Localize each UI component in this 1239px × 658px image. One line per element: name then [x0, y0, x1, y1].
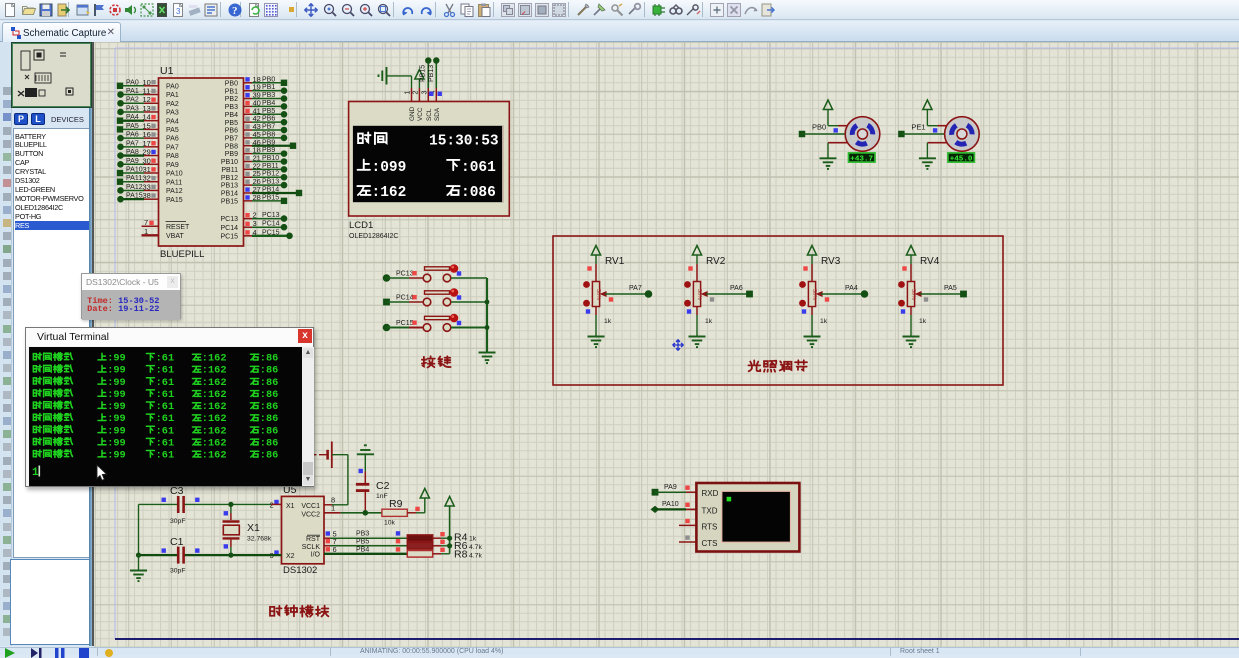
svg-text::99: :99	[107, 450, 126, 462]
push button PC15	[383, 314, 487, 332]
toolbar icon doc-3	[171, 2, 187, 18]
terminal text row 9	[33, 450, 278, 462]
U1 pin PA11 (pin 32) wire + terminal	[117, 174, 182, 187]
servo angle readout +45.0	[948, 153, 975, 164]
toolbar icon dot	[284, 2, 300, 18]
U1 pin PA12 (pin 33) wire + terminal	[117, 182, 183, 195]
OLED pin stubs and numbers	[405, 88, 442, 102]
power symbol above RV2	[692, 246, 701, 265]
resistor R6 4.7k	[407, 540, 482, 552]
svg-text::99: :99	[107, 389, 126, 401]
toolbar icon new	[3, 2, 19, 18]
potentiometer RV2 1k	[684, 256, 726, 307]
U1 pin PB15 (pin 28) wire + terminal	[221, 193, 287, 206]
terminal cursor row	[32, 466, 40, 480]
wiper wire net PA7	[605, 285, 652, 302]
U1 pin PB9 (pin 18) wire + terminal	[225, 146, 288, 159]
toolbar icon cut	[442, 2, 458, 18]
ground symbol (buttons)	[479, 353, 496, 364]
svg-text::162: :162	[202, 425, 227, 437]
svg-text::162: :162	[202, 401, 227, 413]
svg-text::162: :162	[202, 450, 227, 462]
preview pane	[10, 559, 90, 645]
toolbar icon eraser	[187, 2, 203, 18]
U1 pin PA7 (pin 17) wire + terminal	[117, 139, 179, 152]
U1 pin PA10 (pin 31) wire + terminal	[117, 165, 183, 178]
toolbar icon remove-sheet	[726, 2, 742, 18]
U1 pin PC14 (pin 3) wire + terminal	[220, 219, 287, 232]
toolbar icon zoom-in	[358, 2, 374, 18]
resistor R8 4.7k	[407, 548, 482, 561]
tab bar	[0, 21, 1239, 42]
svg-text::162: :162	[202, 353, 227, 365]
svg-text::162: :162	[202, 389, 227, 401]
svg-text::99: :99	[107, 365, 126, 377]
label 光照调节	[748, 360, 807, 371]
U1 pin PB8 (pin 46) wire + terminal	[225, 138, 296, 151]
svg-text::99: :99	[107, 413, 126, 425]
terminal RTS stub	[679, 519, 696, 526]
svg-text::61: :61	[156, 450, 175, 462]
capacitor C1 30pF	[139, 536, 200, 575]
U1 pin PA1 (pin 11) wire + terminal	[117, 87, 179, 100]
U1 pin PB5 (pin 42) wire + terminal	[225, 114, 288, 127]
svg-text::86: :86	[260, 377, 279, 389]
wire net PA9 to terminal RXD	[652, 484, 697, 496]
U1 pin PA6 (pin 16) wire + terminal	[117, 130, 179, 143]
svg-text::99: :99	[107, 353, 126, 365]
U1 pin PB2 (pin 39) wire + terminal	[225, 91, 288, 104]
Virtual Terminal window	[25, 327, 314, 487]
potentiometer RV3 1k	[799, 256, 841, 307]
terminal text row 4	[33, 389, 278, 401]
ground symbol below servo PE1	[919, 143, 948, 169]
toolbar icon component	[107, 2, 123, 18]
toolbar icon copy	[459, 2, 475, 18]
toolbar icon block-delete	[551, 2, 567, 18]
stop button	[78, 648, 90, 658]
wire net PA10 to terminal TXD	[651, 501, 697, 513]
U1 pin PA15 (pin 38) wire + terminal	[117, 191, 183, 204]
terminal text row 5	[33, 401, 278, 413]
toolbar icon pan	[303, 2, 319, 18]
svg-text::86: :86	[260, 353, 279, 365]
wire U5 SCLK net PB5	[324, 538, 407, 546]
LCD1 labels	[349, 220, 398, 240]
U1 pin PA0 (pin 10) wire + terminal	[117, 78, 179, 91]
wire net PE1 to servo signal pin	[898, 123, 944, 138]
push button PC14	[383, 288, 487, 306]
svg-text::86: :86	[260, 450, 279, 462]
toolbar icon decompose	[626, 2, 642, 18]
push button PC13	[383, 264, 487, 282]
toolbar icon block-copy	[500, 2, 516, 18]
power symbol above servo PB0	[823, 100, 848, 126]
terminal text row 8	[33, 437, 278, 449]
svg-text::86: :86	[260, 401, 279, 413]
U1 pin PC13 (pin 2) wire + terminal	[220, 211, 287, 224]
U1 pin PB4 (pin 41) wire + terminal	[225, 106, 288, 119]
servo motor body (PE1)	[945, 117, 980, 152]
toolbar icon goto-sheet	[743, 2, 759, 18]
sheet border bottom	[115, 638, 1239, 640]
toolbar icon new-sheet	[709, 2, 725, 18]
servo motor body (PB0)	[845, 117, 880, 152]
power symbol above servo PE1	[923, 100, 948, 126]
servo angle readout +43.7	[849, 153, 876, 164]
ground below RV4	[901, 307, 927, 348]
toolbar icon property-tool	[685, 2, 701, 18]
svg-text::99: :99	[107, 437, 126, 449]
U1 pin PB1 (pin 19) wire + terminal	[225, 83, 288, 96]
right pull-up bus + power (clock module)	[441, 497, 454, 554]
label 时钟模块	[270, 605, 328, 616]
terminal CTS stub	[679, 535, 696, 542]
toolbar icon block-move	[517, 2, 533, 18]
U1 pin PA3 (pin 13) wire + terminal	[117, 104, 179, 117]
device list	[13, 128, 91, 558]
potentiometer RV4 1k	[898, 256, 940, 307]
overview pane	[12, 43, 91, 107]
mouse cursor	[97, 465, 107, 480]
terminal text row 7	[33, 425, 278, 437]
toolbar icon make-device	[592, 2, 608, 18]
capacitor C2 1nF	[356, 471, 390, 512]
svg-text:?: ?	[232, 5, 238, 17]
ground below RV2	[687, 307, 713, 348]
P button	[14, 113, 28, 125]
toolbar icon zoom-area	[376, 2, 392, 18]
wire U5 VCC2 to R9	[324, 510, 382, 516]
wire bus to ground (buttons)	[485, 278, 490, 352]
terminal text row 2	[33, 365, 278, 377]
wire battery to U5 VCC1	[324, 455, 348, 505]
svg-text::99: :99	[107, 425, 126, 437]
U1 pin PB6 (pin 43) wire + terminal	[225, 122, 288, 135]
toolbar icon zoom-center	[322, 2, 338, 18]
left bus + ground (clock module)	[130, 504, 147, 581]
wire R9 to power	[407, 489, 429, 513]
virtual terminal instrument body	[696, 483, 799, 552]
OLED display LCD1 body	[349, 102, 510, 217]
step button	[30, 648, 42, 658]
potentiometer RV1 1k	[583, 256, 625, 307]
svg-text::99: :99	[107, 377, 126, 389]
U1 pin PB10 (pin 21) wire + terminal	[221, 154, 287, 167]
toolbar icon netlist	[139, 2, 155, 18]
toolbar icon list	[203, 2, 219, 18]
svg-text::162: :162	[202, 413, 227, 425]
wiper wire net PA5	[920, 285, 967, 302]
U1 pin PB7 (pin 45) wire + terminal	[225, 130, 288, 143]
U1 pin VBAT (pin 1)	[142, 227, 185, 240]
toolbar icon undo	[400, 2, 416, 18]
svg-text::61: :61	[156, 401, 175, 413]
toolbar icon save	[38, 2, 54, 18]
svg-text::162: :162	[202, 437, 227, 449]
svg-text::162: :162	[202, 365, 227, 377]
U1 pin PB0 (pin 18) wire + terminal	[225, 75, 287, 88]
terminal text row 6	[33, 413, 278, 425]
U1 pin PB12 (pin 25) wire + terminal	[221, 169, 287, 182]
wiper wire net PA6	[706, 285, 753, 302]
U1 pin PA2 (pin 12) wire + terminal	[117, 95, 179, 108]
toolbar icon exit	[760, 2, 776, 18]
left mode toolbar	[0, 42, 12, 646]
toolbar icon search-tag	[668, 2, 684, 18]
wire net PB0 to servo signal pin	[799, 123, 845, 138]
U1 pin PB14 (pin 27) wire + terminal	[221, 185, 302, 198]
svg-text:1: 1	[32, 467, 39, 479]
move cursor glyph	[673, 340, 684, 351]
pause button	[54, 648, 66, 658]
power symbol above RV1	[591, 246, 600, 265]
svg-text::162: :162	[202, 377, 227, 389]
play button	[4, 648, 16, 658]
U1 pin PB13 (pin 26) wire + terminal	[221, 177, 287, 190]
svg-text::61: :61	[156, 377, 175, 389]
toolbar icon speaker	[123, 2, 139, 18]
terminal text row 1	[33, 353, 278, 365]
power symbol for OLED pin 2	[415, 70, 424, 80]
top toolbar	[0, 0, 1239, 20]
IC U5 DS1302	[282, 484, 337, 576]
toolbar icon flag	[91, 2, 107, 18]
svg-text::61: :61	[156, 365, 175, 377]
ground below RV1	[586, 307, 612, 348]
left object selector panel	[12, 42, 92, 646]
wire U5 RST net PB3	[324, 531, 407, 539]
wire U5 I/O net PB4 (bold)	[324, 546, 407, 553]
region box 光照调节 (light adjustment)	[553, 236, 1003, 385]
resistor R4 1k	[407, 532, 476, 544]
svg-text::61: :61	[156, 437, 175, 449]
OLED black screen with time display	[353, 126, 504, 202]
toolbar icon pick	[575, 2, 591, 18]
toolbar icon block-rotate	[534, 2, 550, 18]
terminal text row 3	[33, 377, 278, 389]
ground below RV3	[802, 307, 828, 348]
toolbar icon paste	[476, 2, 492, 18]
sheet border top	[115, 47, 1239, 49]
toolbar icon redo	[418, 2, 434, 18]
toolbar icon grid	[263, 2, 279, 18]
bottom status bar	[0, 647, 1239, 655]
crystal X1 32.768k	[223, 502, 272, 558]
DS1302 clock popup window U5	[81, 273, 181, 319]
wiper wire net PA4	[821, 285, 868, 302]
toolbar icon refresh	[247, 2, 263, 18]
wire U5 X2 row (bold)	[185, 550, 282, 560]
toolbar icon doc-x	[155, 2, 171, 18]
svg-text::99: :99	[107, 401, 126, 413]
svg-text:3: 3	[176, 7, 181, 16]
U1 pin PB11 (pin 22) wire + terminal	[221, 161, 287, 174]
U1 pin PB3 (pin 40) wire + terminal	[225, 98, 288, 111]
wire net PB15 to OLED pin 3	[420, 57, 432, 88]
battery B1	[313, 442, 332, 469]
svg-text::86: :86	[260, 389, 279, 401]
svg-text::61: :61	[156, 425, 175, 437]
svg-text::61: :61	[156, 389, 175, 401]
U1 pin RESET (pin 7)	[142, 218, 191, 231]
toolbar icon import	[55, 2, 71, 18]
svg-text::86: :86	[260, 365, 279, 377]
label 按键	[422, 356, 451, 367]
inverted ground symbol above C2	[357, 445, 374, 473]
svg-text::61: :61	[156, 413, 175, 425]
toolbar icon help	[227, 2, 243, 18]
toolbar icon zoom-out	[340, 2, 356, 18]
U1 pin PA9 (pin 30) wire + terminal	[117, 156, 179, 169]
power symbol above RV4	[906, 246, 915, 265]
toolbar icon redraw	[75, 2, 91, 18]
capacitor C3 30pF	[139, 485, 200, 525]
resistor R9 10k	[382, 498, 407, 527]
svg-text::86: :86	[260, 425, 279, 437]
ground symbol below servo PB0	[820, 143, 849, 169]
U1 pin PA5 (pin 15) wire + terminal	[117, 121, 179, 134]
svg-text::86: :86	[260, 437, 279, 449]
microcontroller U1 BLUEPILL	[159, 65, 244, 260]
ground symbol (sideways) for OLED pin1	[379, 67, 387, 85]
svg-text::61: :61	[156, 353, 175, 365]
svg-text::86: :86	[260, 413, 279, 425]
L button	[31, 113, 45, 125]
U1 pin PA8 (pin 29) wire + terminal	[117, 148, 179, 161]
U1 pin PC15 (pin 4) wire + terminal	[220, 228, 292, 241]
toolbar icon wire-autoroute	[651, 2, 667, 18]
wire GND net to OLED pin 1	[387, 75, 412, 77]
toolbar icon packaging	[609, 2, 625, 18]
wire net PB13 to OLED pin 4	[428, 57, 439, 88]
power symbol above RV3	[807, 246, 816, 265]
sheet border left	[114, 48, 116, 639]
U1 pin PA4 (pin 14) wire + terminal	[117, 113, 179, 126]
wire U5 X1 row to crystal / C3	[183, 500, 282, 510]
toolbar icon open	[21, 2, 37, 18]
